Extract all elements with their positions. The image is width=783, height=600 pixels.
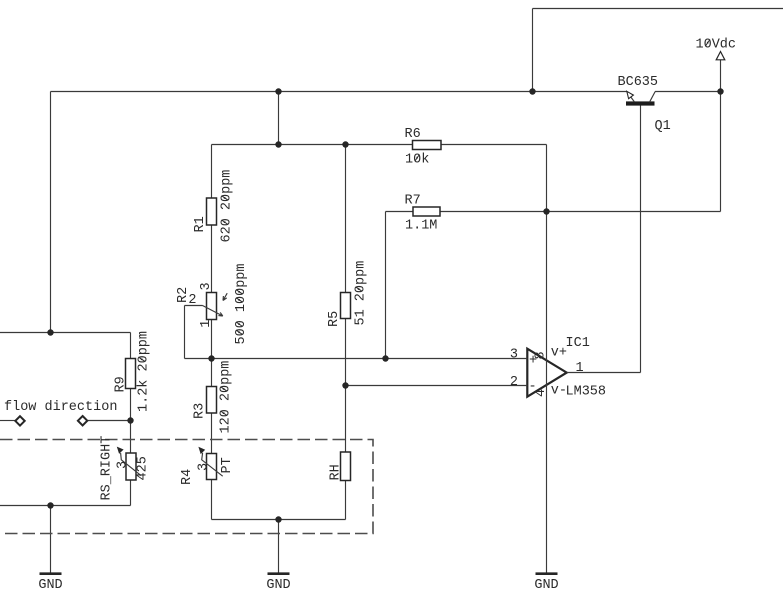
svg-text:3: 3 <box>115 461 130 469</box>
svg-text:1.1M: 1.1M <box>405 219 437 234</box>
svg-text:10k: 10k <box>405 153 429 168</box>
svg-text:10Vdc: 10Vdc <box>696 38 737 53</box>
svg-text:v+: v+ <box>551 346 567 361</box>
svg-text:1.2k 20ppm: 1.2k 20ppm <box>137 331 152 412</box>
svg-text:3: 3 <box>197 463 212 471</box>
svg-text:R5: R5 <box>327 311 342 327</box>
svg-text:2: 2 <box>188 293 196 308</box>
svg-text:R9: R9 <box>114 376 129 392</box>
svg-text:GND: GND <box>266 578 290 593</box>
svg-text:3: 3 <box>199 282 214 290</box>
svg-text:3: 3 <box>510 348 518 363</box>
svg-text:425: 425 <box>136 456 151 480</box>
svg-text:R7: R7 <box>405 194 421 209</box>
svg-text:1: 1 <box>576 361 584 376</box>
svg-text:R3: R3 <box>193 403 208 419</box>
svg-text:PT: PT <box>220 457 235 473</box>
svg-text:R1: R1 <box>193 216 208 232</box>
svg-text:GND: GND <box>534 578 558 593</box>
svg-text:1: 1 <box>199 320 214 328</box>
svg-text:120 20ppm: 120 20ppm <box>219 361 234 434</box>
svg-text:v-: v- <box>551 384 567 399</box>
svg-text:LM358: LM358 <box>566 385 607 400</box>
svg-text:RH: RH <box>329 464 344 480</box>
svg-text:500 100ppm: 500 100ppm <box>234 263 249 344</box>
svg-text:620 20ppm: 620 20ppm <box>220 170 235 243</box>
svg-text:R4: R4 <box>180 469 195 485</box>
svg-text:GND: GND <box>38 578 62 593</box>
svg-text:RS_RIGHT: RS_RIGHT <box>100 436 115 501</box>
svg-text:IC1: IC1 <box>566 336 590 351</box>
svg-text:2: 2 <box>510 375 518 390</box>
svg-text:51 20ppm: 51 20ppm <box>354 261 369 326</box>
svg-text:4: 4 <box>534 389 549 397</box>
svg-text:Q1: Q1 <box>655 119 671 134</box>
svg-text:BC635: BC635 <box>618 75 659 90</box>
svg-text:flow direction: flow direction <box>4 400 117 415</box>
svg-text:8: 8 <box>534 351 549 359</box>
svg-text:R6: R6 <box>405 127 421 142</box>
